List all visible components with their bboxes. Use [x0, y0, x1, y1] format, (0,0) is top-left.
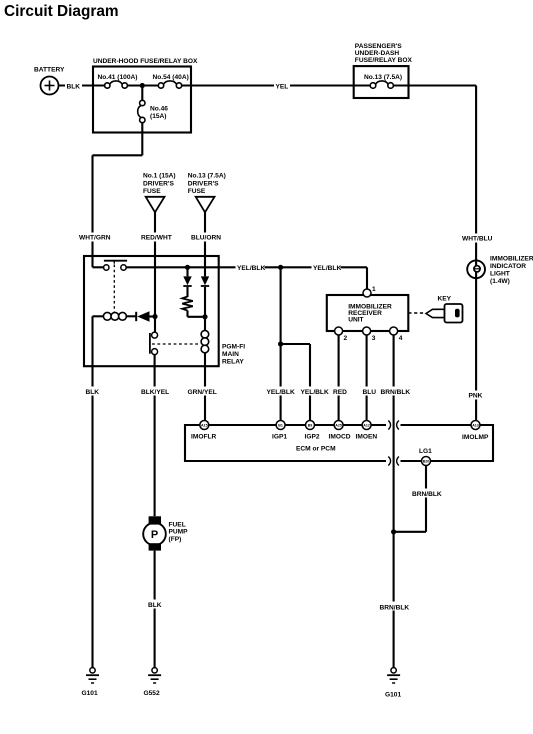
svg-text:IGP2: IGP2	[305, 434, 320, 441]
svg-text:B20: B20	[423, 459, 430, 463]
svg-text:A13: A13	[472, 423, 479, 427]
svg-text:WHT/GRN: WHT/GRN	[79, 235, 111, 242]
svg-text:DRIVER'S: DRIVER'S	[188, 181, 219, 188]
svg-text:IMOFLR: IMOFLR	[191, 434, 217, 441]
svg-text:BRN/BLK: BRN/BLK	[380, 605, 410, 612]
svg-text:RELAY: RELAY	[222, 359, 244, 366]
svg-text:BRN/BLK: BRN/BLK	[412, 491, 442, 498]
svg-text:4: 4	[399, 335, 403, 342]
svg-text:No.1 (15A): No.1 (15A)	[143, 173, 176, 180]
svg-text:P: P	[151, 529, 158, 541]
svg-text:LIGHT: LIGHT	[490, 271, 510, 278]
svg-text:WHT/BLU: WHT/BLU	[462, 236, 493, 243]
svg-text:BLU/ORN: BLU/ORN	[191, 235, 221, 242]
svg-text:FUSE: FUSE	[143, 188, 161, 195]
svg-text:(1.4W): (1.4W)	[490, 278, 510, 285]
svg-text:MAIN: MAIN	[222, 351, 239, 358]
svg-text:BLU: BLU	[363, 389, 377, 396]
svg-text:FUEL: FUEL	[169, 522, 186, 529]
svg-text:BLK: BLK	[148, 602, 162, 609]
svg-text:LG1: LG1	[419, 448, 432, 455]
svg-text:PNK: PNK	[469, 393, 483, 400]
svg-text:YEL/BLK: YEL/BLK	[267, 389, 295, 396]
svg-text:FUSE: FUSE	[188, 188, 206, 195]
svg-text:2: 2	[344, 335, 348, 342]
svg-text:BLK/YEL: BLK/YEL	[141, 389, 169, 396]
svg-text:3: 3	[372, 335, 376, 342]
svg-text:BLK: BLK	[86, 389, 100, 396]
svg-text:(FP): (FP)	[169, 536, 182, 543]
svg-text:(15A): (15A)	[150, 113, 167, 120]
svg-text:YEL/BLK: YEL/BLK	[237, 265, 265, 272]
svg-text:No.41 (100A): No.41 (100A)	[98, 74, 138, 81]
svg-text:PUMP: PUMP	[169, 529, 189, 536]
svg-text:UNDER-HOOD FUSE/RELAY BOX: UNDER-HOOD FUSE/RELAY BOX	[93, 58, 198, 65]
svg-text:G101: G101	[385, 692, 401, 699]
svg-text:IMMOBILIZER: IMMOBILIZER	[490, 256, 533, 263]
svg-text:GRN/YEL: GRN/YEL	[188, 389, 217, 396]
svg-text:PASSENGER'S: PASSENGER'S	[355, 43, 402, 50]
svg-text:No.46: No.46	[150, 106, 168, 113]
svg-text:G552: G552	[144, 690, 160, 697]
svg-text:IMOLMP: IMOLMP	[462, 434, 489, 441]
svg-text:A12: A12	[363, 423, 370, 427]
svg-text:B9: B9	[308, 423, 313, 427]
svg-text:INDICATOR: INDICATOR	[490, 263, 526, 270]
svg-text:ECM or PCM: ECM or PCM	[296, 446, 336, 453]
svg-text:FUSE/RELAY BOX: FUSE/RELAY BOX	[355, 57, 413, 64]
svg-text:BATTERY: BATTERY	[34, 67, 65, 74]
svg-text:No.13 (7.5A): No.13 (7.5A)	[364, 74, 402, 81]
svg-text:BLK: BLK	[67, 83, 81, 90]
svg-text:KEY: KEY	[438, 296, 452, 303]
svg-text:A15: A15	[201, 423, 208, 427]
svg-text:IMOEN: IMOEN	[356, 434, 378, 441]
svg-text:1: 1	[372, 286, 376, 293]
svg-text:YEL/BLK: YEL/BLK	[313, 265, 341, 272]
svg-text:No.13 (7.5A): No.13 (7.5A)	[188, 173, 226, 180]
svg-text:B1: B1	[278, 423, 283, 427]
svg-text:DRIVER'S: DRIVER'S	[143, 181, 174, 188]
svg-text:BRN/BLK: BRN/BLK	[381, 389, 411, 396]
svg-text:UNDER-DASH: UNDER-DASH	[355, 50, 400, 57]
svg-text:RED: RED	[333, 389, 347, 396]
svg-text:IMOCD: IMOCD	[329, 434, 351, 441]
svg-text:UNIT: UNIT	[348, 317, 363, 324]
svg-text:Circuit Diagram: Circuit Diagram	[4, 3, 119, 20]
svg-text:No.54 (40A): No.54 (40A)	[153, 74, 189, 81]
svg-text:RED/WHT: RED/WHT	[141, 235, 172, 242]
svg-text:YEL: YEL	[276, 83, 289, 90]
svg-text:YEL/BLK: YEL/BLK	[301, 389, 329, 396]
svg-text:G101: G101	[82, 690, 98, 697]
svg-text:A25: A25	[335, 423, 342, 427]
svg-text:PGM-FI: PGM-FI	[222, 344, 245, 351]
svg-text:IGP1: IGP1	[272, 434, 287, 441]
